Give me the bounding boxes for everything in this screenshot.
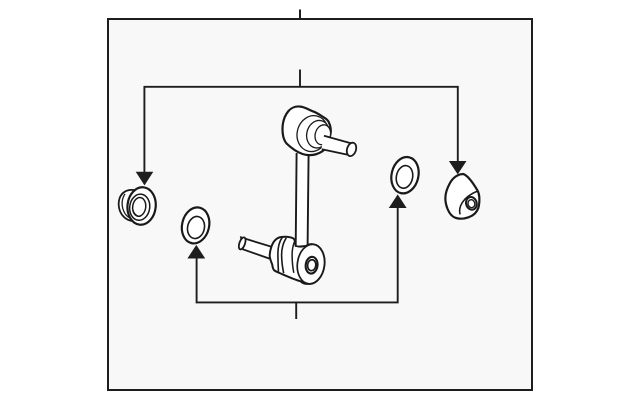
arrow to bushing: [136, 172, 154, 186]
link lower barrel body: [270, 237, 327, 286]
bottom bracket wire: [197, 208, 398, 302]
arrow to nut: [449, 161, 467, 174]
ball ring 2: [304, 118, 333, 151]
bushing grommet: [119, 186, 158, 226]
left washer: [178, 205, 212, 247]
link upper stud: [322, 136, 358, 158]
ball ring 1: [293, 112, 332, 155]
barrel ring groove A: [278, 237, 282, 271]
link shaft: [296, 153, 309, 246]
top center tick: [299, 10, 301, 21]
top bracket tick: [299, 70, 301, 87]
bottom bracket tick: [295, 302, 297, 319]
barrel eye: [305, 256, 319, 274]
barrel ring groove B: [282, 238, 287, 273]
right washer: [388, 154, 422, 196]
barrel face: [295, 243, 327, 286]
link upper ball housing: [283, 106, 333, 155]
link lower stud: [237, 237, 274, 260]
top bracket wire: [144, 87, 457, 172]
nut: [445, 174, 479, 219]
ball ring 3: [313, 123, 333, 146]
arrow to left washer: [187, 245, 205, 259]
shaft-to-barrel joint line: [296, 245, 308, 247]
barrel ring groove C: [292, 242, 295, 273]
arrow to right washer: [389, 194, 407, 208]
